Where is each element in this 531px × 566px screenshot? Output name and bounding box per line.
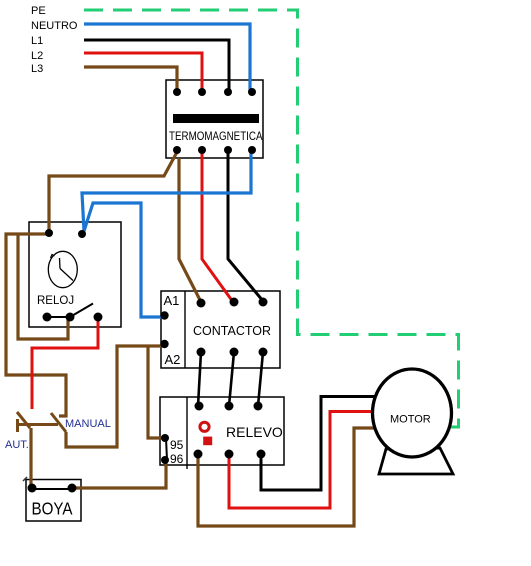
svg-text:MOTOR: MOTOR xyxy=(390,414,431,426)
svg-text:BOYA: BOYA xyxy=(32,499,73,519)
svg-text:95: 95 xyxy=(170,438,184,452)
svg-text:L3: L3 xyxy=(31,63,43,75)
svg-text:NEUTRO: NEUTRO xyxy=(31,20,78,32)
svg-text:96: 96 xyxy=(170,452,184,466)
svg-text:RELEVO: RELEVO xyxy=(226,424,283,440)
svg-text:MANUAL: MANUAL xyxy=(65,418,111,430)
svg-text:PE: PE xyxy=(31,5,46,17)
svg-text:A2: A2 xyxy=(165,352,181,367)
svg-text:A1: A1 xyxy=(164,293,180,308)
svg-text:AUT.: AUT. xyxy=(5,439,29,451)
svg-text:RELOJ: RELOJ xyxy=(37,295,74,307)
svg-text:CONTACTOR: CONTACTOR xyxy=(193,324,271,338)
svg-text:L1: L1 xyxy=(31,35,43,47)
svg-text:TERMOMAGNETICA: TERMOMAGNETICA xyxy=(169,129,263,143)
svg-text:L2: L2 xyxy=(31,50,43,62)
